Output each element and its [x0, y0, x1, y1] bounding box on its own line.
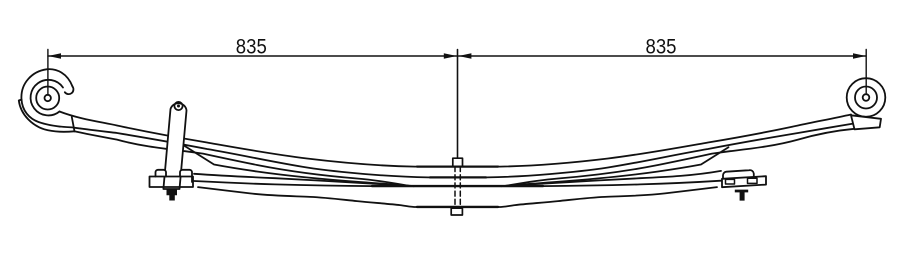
- link pin circle: [174, 102, 182, 110]
- svg-text:835: 835: [236, 36, 267, 59]
- left eye small center circle: [45, 95, 51, 101]
- right clip band: [722, 176, 766, 187]
- right leaf end piece under eye: [851, 115, 881, 129]
- dimension extension line left (through left eye center): [47, 50, 49, 96]
- dimension extension line center (down to center bolt): [457, 50, 459, 159]
- dimension extension line right (through right eye center): [865, 50, 867, 94]
- left eye outer wrap spiral (outer edge): [19, 69, 75, 132]
- leaf 3 (steep end segment at link, to center flat): [184, 145, 729, 186]
- center bolt shank hidden lines: [454, 167, 456, 208]
- wrap end cut: [72, 117, 75, 131]
- right eye: [847, 78, 886, 129]
- left eye second wrap (leaf 2 under eye): [19, 100, 75, 132]
- center flat segments (leaf seats): [372, 167, 543, 207]
- leaf 2 bottom edge (from wrap cut, kink, to center flat): [74, 129, 854, 186]
- left clip band: [150, 170, 194, 201]
- leaf 4 top edge (clip to pack): [194, 171, 721, 186]
- leaf 1 bottom edge / leaf 2 top: [73, 124, 853, 178]
- left eye middle circle: [36, 87, 59, 110]
- left clip bolt: [167, 189, 178, 200]
- link pin center dot: [177, 105, 180, 108]
- right clip bolt: [735, 190, 748, 201]
- bottom helper leaf: [198, 187, 717, 207]
- shackle link body: [163, 102, 186, 189]
- center bolt nut: [451, 208, 462, 215]
- left eye inner wrap arc: [31, 80, 63, 116]
- dimension line 835 left span: [48, 53, 457, 58]
- center bolt head: [451, 158, 462, 215]
- right clip hood: [722, 170, 766, 200]
- left eye wrap end hook: [65, 87, 74, 95]
- svg-text:835: 835: [646, 36, 677, 59]
- right clip slot windows: [726, 179, 735, 184]
- leaf 4 bottom edge: [194, 181, 721, 186]
- leaf 1 top edge (main leaf, eye to eye): [60, 112, 852, 167]
- dimension line 835 right span: [458, 53, 866, 58]
